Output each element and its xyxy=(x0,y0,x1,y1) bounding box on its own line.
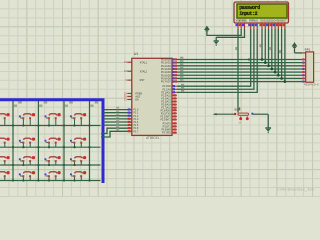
svg-text:CSM @ventses_318: CSM @ventses_318 xyxy=(277,186,315,191)
svg-text:P1.6: P1.6 xyxy=(134,128,139,130)
svg-text:P1.1: P1.1 xyxy=(134,113,139,115)
svg-text:P0.1/AD1: P0.1/AD1 xyxy=(161,62,172,65)
svg-text:P3.7/RD: P3.7/RD xyxy=(162,133,171,135)
svg-text:XTAL1: XTAL1 xyxy=(140,61,148,64)
svg-text:P3.4/T0: P3.4/T0 xyxy=(163,123,172,125)
svg-text:P2.4/A12: P2.4/A12 xyxy=(161,98,171,101)
svg-text:P0.4/AD4: P0.4/AD4 xyxy=(161,71,172,74)
svg-text:P2.5/A13: P2.5/A13 xyxy=(161,101,171,104)
svg-text:P2.2/A10: P2.2/A10 xyxy=(161,91,171,94)
svg-text:P2.7/A15: P2.7/A15 xyxy=(161,107,171,110)
svg-text:P2.3/A11: P2.3/A11 xyxy=(161,94,171,97)
svg-text:P3.0/RXD: P3.0/RXD xyxy=(160,110,171,112)
svg-text:P1.7: P1.7 xyxy=(134,131,139,133)
svg-text:P2.6/A14: P2.6/A14 xyxy=(161,104,171,107)
svg-text:P3.3/INT1: P3.3/INT1 xyxy=(160,120,171,122)
svg-text:RP1: RP1 xyxy=(305,48,311,52)
svg-text:P1.5: P1.5 xyxy=(134,125,139,127)
svg-text:P1.2: P1.2 xyxy=(134,116,139,118)
svg-text:P1.4: P1.4 xyxy=(134,122,139,124)
svg-text:P0.2/AD2: P0.2/AD2 xyxy=(161,65,172,68)
svg-text:P3.6/WR: P3.6/WR xyxy=(161,130,171,132)
svg-text:P0.6/AD6: P0.6/AD6 xyxy=(161,77,172,80)
svg-text:P0.3/AD3: P0.3/AD3 xyxy=(161,68,172,71)
svg-text:input:2: input:2 xyxy=(239,11,257,17)
svg-text:P3.1/TXD: P3.1/TXD xyxy=(161,113,171,115)
svg-text:P0.7/AD7: P0.7/AD7 xyxy=(161,81,172,84)
svg-text:XTAL2: XTAL2 xyxy=(140,70,148,73)
svg-text:VEE: VEE xyxy=(242,21,247,23)
svg-text:U1: U1 xyxy=(134,52,138,56)
svg-text:EA: EA xyxy=(135,99,139,102)
svg-text:P0.0/AD0: P0.0/AD0 xyxy=(161,59,172,62)
svg-text:P2.0/A8: P2.0/A8 xyxy=(163,85,172,88)
svg-text:P1.0: P1.0 xyxy=(134,110,139,112)
svg-text:P0.5/AD5: P0.5/AD5 xyxy=(161,74,172,77)
svg-text:RST: RST xyxy=(140,79,145,82)
svg-text:P1.3: P1.3 xyxy=(134,119,139,121)
svg-text:P3.2/INT0: P3.2/INT0 xyxy=(160,117,171,119)
svg-text:RESPACK-8: RESPACK-8 xyxy=(304,83,319,87)
svg-text:AT89C51: AT89C51 xyxy=(146,136,159,140)
svg-text:P3.5/T1: P3.5/T1 xyxy=(163,127,172,129)
svg-text:P2.1/A9: P2.1/A9 xyxy=(163,88,172,91)
